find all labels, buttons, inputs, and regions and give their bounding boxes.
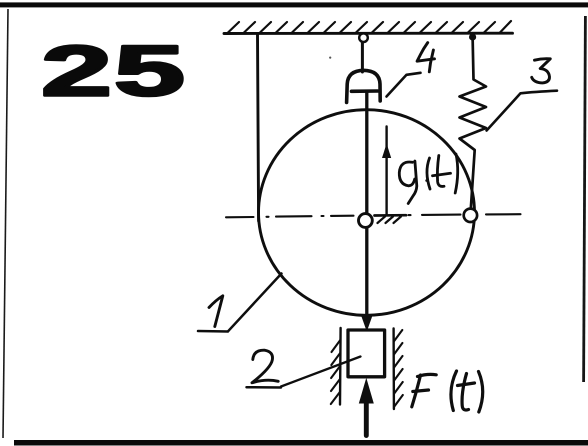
svg-text:25: 25 [41, 31, 187, 111]
underline for label 2 [247, 386, 282, 389]
block 2 (slider) [348, 330, 385, 377]
label q(t) [399, 154, 457, 204]
damper 4 cylinder cup [347, 70, 381, 102]
q(t) coordinate arrow [385, 127, 387, 215]
leader line for label 3 [487, 91, 557, 131]
left guide wall [339, 328, 342, 405]
ink speck near damper [329, 57, 331, 59]
right guide wall hatching [394, 330, 403, 407]
disk 1 [259, 110, 475, 316]
cord from ceiling to disk left tangent [258, 35, 259, 222]
leader line for label 2 [281, 357, 361, 387]
central rod (piston rod through disk center) [365, 92, 368, 319]
rod from ceiling pin to damper cylinder [361, 41, 364, 72]
datum hatching ticks [378, 217, 402, 224]
label 2 [252, 350, 278, 383]
label 1 [209, 296, 223, 327]
ceiling hatching [228, 21, 511, 33]
force F(t) arrow [364, 402, 369, 436]
underline for label 1 [198, 330, 228, 333]
label 3 [532, 59, 551, 83]
label F(t) [412, 371, 483, 412]
right pin node connecting spring to disk [464, 209, 477, 222]
damper 4 piston plate [352, 89, 378, 93]
left guide wall hatching [331, 340, 341, 404]
ceiling support line [224, 32, 513, 35]
spring 3 top attachment dot [469, 33, 476, 40]
center pin node [359, 214, 373, 228]
problem number label 25 [41, 31, 187, 111]
leader line for label 4 [387, 73, 421, 97]
leader line for label 1 [228, 274, 282, 332]
datum line at center (solid with hatching) [375, 214, 407, 217]
label 4 [417, 43, 434, 72]
center axis dash-dot line [226, 214, 521, 217]
arrowhead of rod entering block 2 [361, 316, 372, 332]
pin joint at ceiling [359, 33, 368, 42]
spring 3 [460, 37, 487, 210]
right guide wall [392, 329, 395, 410]
